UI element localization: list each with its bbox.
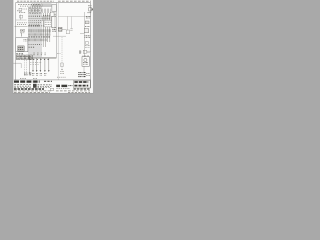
bus wires vertical — [29, 7, 41, 57]
edge component marks — [52, 15, 55, 17]
frame top border — [16, 2, 91, 4]
M1 inner text — [45, 22, 51, 24]
dense label band — [28, 36, 50, 38]
left feeder wire — [20, 15, 22, 20]
edge wire drop — [54, 12, 56, 28]
tick near divider mid — [57, 52, 60, 54]
ECU box U1 — [16, 38, 28, 52]
label text row A — [17, 23, 27, 25]
sensor drop wire — [61, 37, 63, 70]
ECU inner block — [18, 46, 24, 51]
small marks bottom right c — [86, 74, 89, 76]
right table dark rows — [74, 82, 88, 86]
extra wires x42-52 upper — [42, 16, 51, 20]
frame right border — [90, 3, 92, 89]
small comp right col y43 — [85, 42, 90, 48]
legend mid text small row — [56, 88, 70, 90]
fine print line 1 — [14, 90, 90, 92]
double bus rail — [28, 56, 56, 59]
right panel top rule — [58, 16, 90, 18]
bottom dark row of part numbers — [14, 88, 44, 90]
relay group row (three relays) — [16, 55, 32, 60]
J1 text — [59, 28, 62, 30]
marks right of lamp — [71, 29, 73, 31]
motor box top ticks — [83, 55, 88, 56]
fuse row boxes — [29, 9, 42, 12]
legend dark cell — [33, 84, 37, 88]
label right col 2 — [85, 26, 90, 28]
page right edge — [92, 0, 94, 93]
wire labels mid-drop — [30, 63, 42, 65]
node labels row B — [29, 15, 51, 17]
wire tag c — [36, 74, 38, 76]
connector pair symbols — [20, 29, 24, 31]
drop wires with arrows — [30, 58, 49, 74]
wire tags above rail — [33, 53, 47, 55]
mid text rows dense — [29, 18, 51, 24]
junction text light tail — [41, 25, 47, 27]
fuse row labels — [29, 5, 42, 13]
frame left border — [15, 3, 17, 80]
terminal strip row — [42, 3, 51, 7]
rail node ticks — [30, 59, 51, 61]
page bottom edge — [13, 92, 93, 94]
right table box — [74, 80, 90, 88]
label right col 1 — [86, 16, 90, 18]
ECU inner text — [24, 39, 28, 41]
wire row h1 — [16, 19, 27, 21]
viewer background — [0, 0, 100, 100]
right column main wire — [84, 12, 86, 57]
node labels mid bus — [29, 45, 42, 48]
feeder wires vertical — [43, 13, 52, 47]
legend mid boxes — [56, 85, 67, 87]
fine print line 2 — [14, 91, 90, 93]
top label row text — [18, 5, 41, 7]
legend row1 right part — [44, 80, 52, 82]
label right col 3 — [84, 36, 90, 38]
wire row h2 — [15, 26, 28, 28]
left lower junction — [13, 62, 21, 64]
legend text rows left — [14, 85, 52, 88]
wire tag d — [40, 74, 42, 76]
page left edge — [12, 0, 14, 93]
relay box K9 right col — [84, 29, 88, 33]
connector pair label — [20, 32, 25, 34]
junction text dark row — [28, 25, 40, 27]
sensor bottom marks — [60, 72, 63, 74]
drop stub x67.5 — [67, 17, 69, 31]
wire tag e — [44, 74, 46, 76]
connector hatch row 2 — [28, 33, 50, 35]
lamp box L1 — [66, 30, 70, 34]
scale box bottom mid — [50, 88, 53, 90]
relay K4 — [26, 55, 29, 60]
connector box X1 — [19, 8, 22, 11]
arrowheads — [32, 70, 49, 72]
relay K5 — [29, 55, 32, 60]
battery sym top right — [87, 6, 91, 13]
relay K2 — [16, 55, 20, 60]
symbol above ECU — [21, 31, 25, 37]
fuse F1 right col — [85, 21, 89, 24]
relay K3 — [21, 55, 25, 60]
component box M1 — [44, 20, 52, 27]
page — [13, 0, 93, 93]
header text strip — [17, 0, 91, 2]
legend row1 dark blocks — [14, 80, 40, 82]
terminal circles row — [32, 4, 42, 7]
right panel left border — [57, 3, 59, 80]
note text above legend mid — [57, 76, 66, 78]
dashed drop wires left — [25, 60, 27, 76]
ECU inner block text — [18, 47, 23, 49]
bottom row right lighter — [74, 88, 91, 90]
switch cluster bottom right a — [78, 73, 81, 77]
stub down from junction — [20, 63, 22, 68]
connector box X9 — [51, 12, 54, 16]
connector hatch row 3 — [28, 39, 46, 42]
connector blob on wire 1 — [29, 73, 32, 75]
lower component cluster a — [24, 73, 28, 75]
relay text marks — [17, 56, 32, 58]
motor box M2 — [82, 57, 89, 67]
stub wire left — [80, 33, 84, 35]
legend mid small text — [68, 85, 72, 87]
column divider — [55, 3, 57, 58]
switch cluster bottom right b — [83, 73, 86, 77]
sensor symbol — [61, 63, 64, 67]
motor circle — [84, 58, 87, 61]
legend top rule — [14, 79, 91, 81]
sub labels below ECU — [16, 53, 24, 55]
margin tab mark — [92, 8, 93, 10]
wire tag b — [32, 74, 34, 76]
motor inner marks — [83, 63, 88, 65]
drop stub x71.6 — [71, 17, 73, 29]
fuse row strokes — [43, 9, 51, 13]
small text above legend — [20, 77, 37, 79]
small comp right col y51 — [83, 50, 90, 53]
wire h right mid — [53, 35, 66, 37]
relay box K1 — [52, 4, 56, 11]
connector hatch row 1 — [28, 29, 50, 32]
small marks right of divider col — [52, 27, 56, 31]
junction block J1 — [58, 27, 62, 31]
wire to lamp — [62, 28, 66, 30]
connector ticks left of box — [79, 50, 81, 54]
row1 white slits — [20, 80, 33, 83]
component cluster top-left — [17, 9, 27, 13]
sensor arrow — [61, 69, 62, 70]
switch S1 — [20, 15, 23, 18]
wire below motor — [83, 66, 85, 72]
